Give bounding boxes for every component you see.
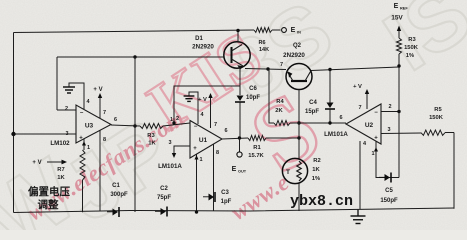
wire U3 pin3 input [14,133,77,135]
svg-text:10pF: 10pF [246,95,260,101]
wire U1 pin3 stub [174,146,190,154]
wire U1 output [222,138,248,139]
wire D1 base/C6 branch [239,67,241,95]
capacitor C6 10pF [237,96,244,102]
svg-text:14K: 14K [259,47,269,53]
wire U1 pin2 feedback loop [174,86,240,123]
svg-text:1: 1 [371,151,374,157]
svg-text:LM101A: LM101A [324,131,348,138]
svg-text:+: + [79,136,83,142]
svg-text:−: − [194,124,198,130]
svg-text:C6: C6 [249,86,257,92]
capacitor C4 15pF [329,70,331,104]
svg-text:+: + [193,146,197,152]
power +V at U3 [93,87,106,118]
svg-text:7: 7 [214,122,217,128]
svg-text:E: E [291,27,296,34]
svg-text:D1: D1 [195,36,203,42]
svg-text:2N2920: 2N2920 [192,44,214,51]
wire U3 output [111,125,140,126]
svg-text:3: 3 [65,131,68,137]
op-amp U1 LM101A [158,121,222,171]
resistor R6 14K [254,28,272,33]
wire bottom ground rail [14,208,455,213]
svg-text:3: 3 [387,127,390,133]
svg-text:R4: R4 [276,99,284,105]
svg-text:T: T [286,169,290,176]
transistor Q2 2N2920 [283,43,312,90]
svg-text:1pF: 1pF [221,199,232,205]
wire U2 pin1 / C5 loop [376,141,399,178]
svg-text:OUT: OUT [238,170,247,174]
svg-text:−: − [374,110,378,116]
svg-text:LM102: LM102 [50,140,70,147]
ground at U3 [63,83,90,109]
capacitor C3 1pF [203,194,214,201]
svg-text:R2: R2 [313,158,320,164]
svg-text:2: 2 [388,104,391,110]
wire U2 pin3 to R5 [381,132,421,135]
wire Q2 collector to reference node [311,67,399,71]
svg-text:1K: 1K [312,167,320,173]
svg-text:15.7K: 15.7K [248,153,264,159]
svg-text:150K: 150K [404,45,419,51]
resistor R4 2K [274,121,290,126]
power E_REF 15V [391,3,408,38]
svg-text:C2: C2 [160,186,168,192]
svg-text:1K: 1K [148,141,156,147]
svg-text:E: E [232,166,237,173]
resistor R3 150K 1% [397,38,402,54]
power +V at U1 [198,93,217,128]
svg-text:1%: 1% [312,176,320,182]
svg-text:6: 6 [224,128,227,134]
resistor R5 150K [421,130,445,135]
svg-text:Q2: Q2 [293,43,302,49]
power +V at U2 [353,84,369,111]
svg-text:2N2920: 2N2920 [283,52,305,59]
svg-text:8: 8 [216,150,219,156]
ground at U1 [184,92,205,124]
svg-text:IN: IN [297,31,301,35]
svg-text:7: 7 [103,110,106,116]
wire top input rail [14,30,255,33]
svg-text:R5: R5 [434,107,442,113]
capacitor C2 75pF [155,208,166,215]
wire Q2 base down [298,90,300,159]
svg-text:C3: C3 [221,190,229,196]
svg-text:1: 1 [87,145,90,151]
resistor R7 1K bias pot [80,150,85,180]
node E_in terminal [282,28,287,33]
svg-text:2: 2 [65,106,68,112]
wire U3 pin 8 branch [99,130,101,212]
capacitor C5 150pF [379,174,390,181]
svg-text:150K: 150K [429,115,444,121]
svg-text:C4: C4 [309,100,317,106]
svg-text:150pF: 150pF [380,198,398,204]
svg-text:+ V: + V [93,87,102,93]
svg-text:6: 6 [114,117,117,123]
svg-text:+ V: + V [353,84,362,90]
svg-text:+ V: + V [198,97,207,103]
svg-text:15pF: 15pF [305,109,319,115]
op-amp U3 LM102 [50,105,111,147]
resistor R1 15.7K [248,136,266,141]
svg-text:3: 3 [168,140,171,146]
wire U1 pin8 / C3 branch [213,145,215,211]
ground main [351,210,366,224]
svg-text:1: 1 [199,157,202,163]
svg-text:C5: C5 [385,188,393,194]
svg-text:E: E [394,3,399,10]
svg-text:+ V: + V [32,160,41,166]
op-amp U2 LM101A [324,104,381,144]
svg-text:2K: 2K [275,108,283,114]
svg-text:1%: 1% [406,53,414,59]
node E_out terminal [239,138,241,152]
svg-text:7: 7 [280,62,283,68]
transistor D1 2N2920 [192,36,250,70]
svg-text:300pF: 300pF [110,192,128,198]
svg-text:R1: R1 [253,145,261,151]
resistor R3 1K interstage [140,124,163,129]
svg-text:U2: U2 [365,122,374,129]
svg-text:R3: R3 [408,37,416,43]
svg-text:−: − [80,111,84,117]
wire C5 right leg [398,112,400,178]
svg-text:R3: R3 [147,133,155,139]
wire D1 collector stub [237,31,239,43]
svg-text:偏置电压: 偏置电压 [28,185,70,198]
capacitor C1 300pF [107,209,118,216]
wire inner top feedback rail [57,56,224,58]
wire U2 pin2 [381,111,399,113]
wire C2 branch vertical [134,57,136,212]
wire U2 pin4 down [359,141,361,210]
svg-text:ybx8.cn: ybx8.cn [290,193,353,210]
svg-text:1K: 1K [57,175,65,181]
svg-text:75pF: 75pF [157,195,171,201]
svg-text:U3: U3 [85,123,94,130]
svg-text:+: + [374,136,378,142]
wire R4 branch up [269,69,274,123]
wire U3 pin 1 [83,139,85,150]
svg-text:2: 2 [176,116,179,122]
svg-text:R6: R6 [258,40,265,46]
wire U1 pin1 [196,154,198,212]
svg-text:调整: 调整 [38,198,59,211]
svg-text:7: 7 [358,105,361,111]
svg-text:U1: U1 [199,137,208,144]
thermistor R2 1K 1% [282,158,307,183]
wire right rail [453,133,455,209]
svg-text:LM101A: LM101A [158,163,182,170]
svg-text:8: 8 [103,137,106,143]
svg-text:15V: 15V [391,15,403,22]
wire emitters rail [245,69,286,70]
svg-text:C1: C1 [112,183,120,189]
svg-text:6: 6 [339,115,342,121]
svg-text:R7: R7 [57,167,64,173]
svg-text:REF: REF [400,7,408,11]
wire left rail [13,33,15,213]
